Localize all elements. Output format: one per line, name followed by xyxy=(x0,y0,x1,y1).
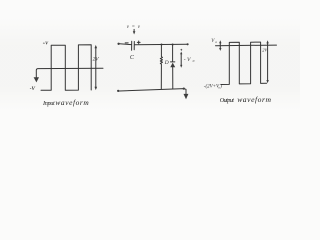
svg-text:Output: Output xyxy=(220,97,234,104)
svg-text:o: o xyxy=(215,40,217,44)
svg-text:Input: Input xyxy=(42,100,55,107)
svg-text:waveform: waveform xyxy=(237,95,271,104)
svg-text:+V: +V xyxy=(43,41,50,46)
svg-text:D: D xyxy=(164,60,169,66)
svg-text:): ) xyxy=(219,85,222,90)
svg-text:-V: -V xyxy=(30,86,36,92)
svg-text:o: o xyxy=(193,59,195,63)
svg-text:waveform: waveform xyxy=(55,98,89,107)
svg-text:2V: 2V xyxy=(93,57,100,63)
svg-text:v = v: v = v xyxy=(127,25,141,30)
svg-text:- V: - V xyxy=(184,57,191,63)
